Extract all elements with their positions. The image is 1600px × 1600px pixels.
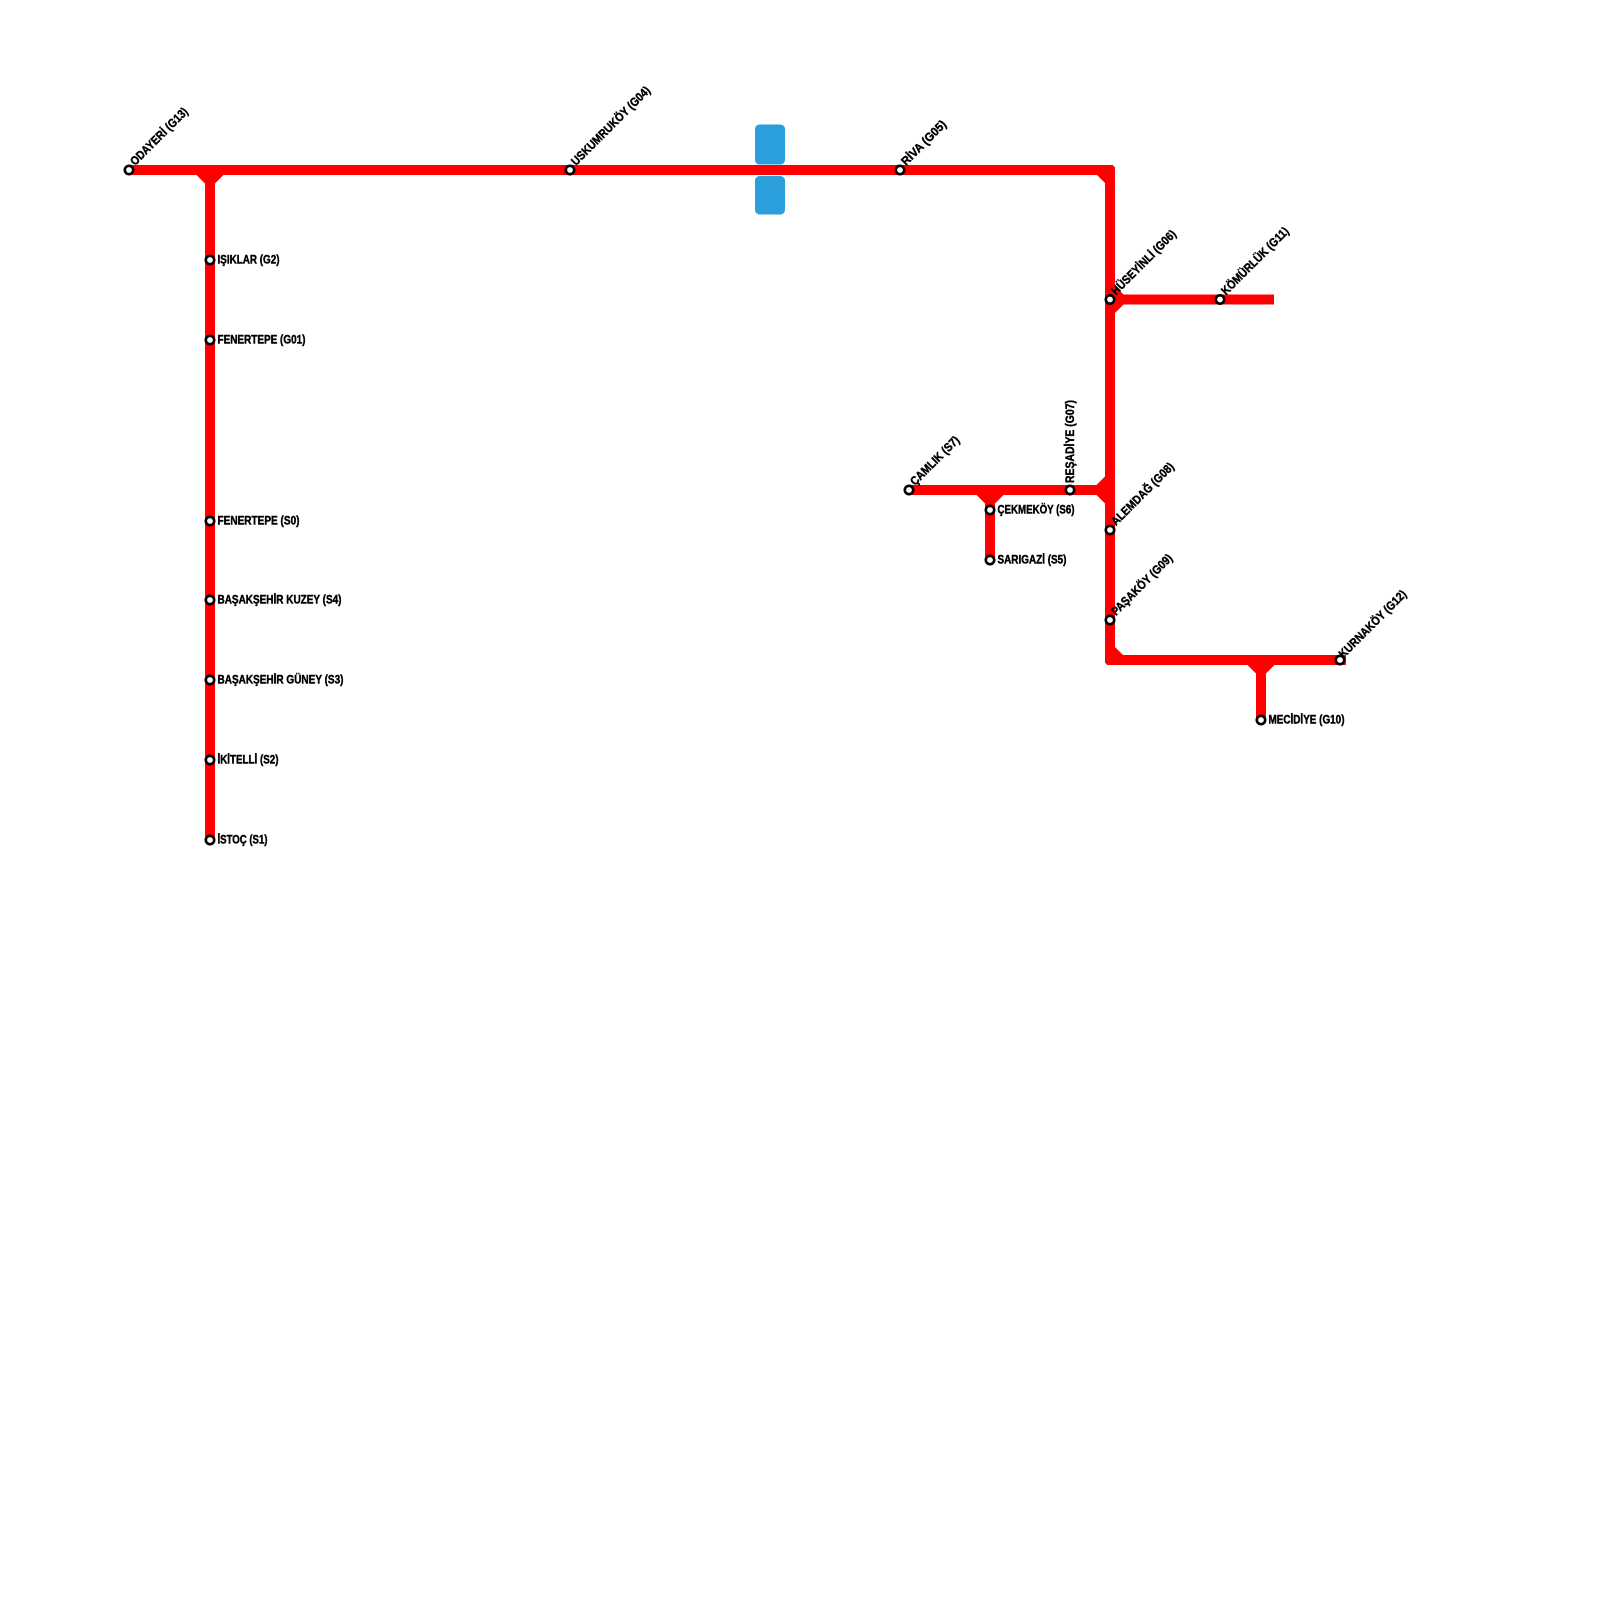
junction flare at KOMURLUK branch [1115, 286, 1124, 313]
line: CAMLIK branch [909, 485, 1110, 495]
junction flare at CEKMEKOY sub-branch [977, 495, 1004, 504]
svg-text:FENERTEPE (S0): FENERTEPE (S0) [218, 514, 300, 528]
station PASAKOY (G09) [1106, 616, 1114, 624]
junction flare at MECIDIYE branch [1248, 665, 1275, 674]
station CAMLIK (S7) [905, 486, 913, 494]
station FENERTEPE (G01) [206, 336, 214, 344]
station USKUMRUKOY (G04) [566, 166, 574, 174]
svg-text:MECİDİYE (G10): MECİDİYE (G10) [1269, 712, 1345, 727]
svg-text:ÇEKMEKÖY (S6): ÇEKMEKÖY (S6) [998, 502, 1075, 517]
corner fillet bottom [1115, 647, 1123, 655]
station BASAKSEHIR GUNEY (S3) [206, 676, 214, 684]
junction flare at west branch [197, 175, 224, 184]
line: main trunk top horizontal ODAYERI to corner [129, 165, 1110, 175]
svg-text:İKİTELLİ (S2): İKİTELLİ (S2) [218, 752, 279, 767]
line: west branch to ISTOC [205, 170, 215, 840]
station ODAYERI (G13) [125, 166, 133, 174]
station SARIGAZI (S5) [986, 556, 994, 564]
station HUSEYINLI (G06) [1106, 295, 1114, 303]
corner fillet top [1097, 175, 1105, 183]
svg-text:BAŞAKŞEHİR GÜNEY (S3): BAŞAKŞEHİR GÜNEY (S3) [218, 672, 344, 687]
line: KOMURLUK branch [1110, 295, 1274, 305]
station CEKMEKOY (S6) [986, 506, 994, 514]
station IKITELLI (S2) [206, 756, 214, 764]
svg-text:REŞADİYE (G07): REŞADİYE (G07) [1062, 400, 1077, 483]
station FENERTEPE (S0) [206, 517, 214, 525]
station BASAKSEHIR KUZEY (S4) [206, 596, 214, 604]
station KOMURLUK (G11) [1216, 295, 1224, 303]
station MECIDIYE (G10) [1257, 716, 1265, 724]
sea crossing marker north [755, 125, 785, 165]
station RESADIYE (G07) [1066, 486, 1074, 494]
junction flare at CAMLIK branch [1097, 477, 1106, 504]
line: CEKMEKOY sub-branch [985, 490, 995, 560]
svg-text:İSTOÇ (S1): İSTOÇ (S1) [218, 832, 268, 847]
line: main trunk vertical [1105, 165, 1115, 665]
corner chamfer bottom [1105, 663, 1107, 665]
sea crossing marker south [755, 176, 785, 215]
station RIVA (G05) [896, 166, 904, 174]
station ISTOC (S1) [206, 836, 214, 844]
station ALEMDAG (G08) [1106, 526, 1114, 534]
station KURNAKOY (G12) [1336, 656, 1344, 664]
line: MECIDIYE branch [1256, 660, 1266, 720]
svg-text:FENERTEPE (G01): FENERTEPE (G01) [218, 333, 306, 347]
svg-text:SARIGAZİ (S5): SARIGAZİ (S5) [998, 552, 1067, 567]
line: main trunk bottom horizontal corner to KURNAKOY [1105, 655, 1346, 665]
station ISIKLAR (G2) [206, 256, 214, 264]
corner chamfer top [1113, 165, 1115, 167]
svg-text:IŞIKLAR (G2): IŞIKLAR (G2) [218, 253, 280, 267]
svg-text:BAŞAKŞEHİR KUZEY (S4): BAŞAKŞEHİR KUZEY (S4) [218, 592, 342, 607]
